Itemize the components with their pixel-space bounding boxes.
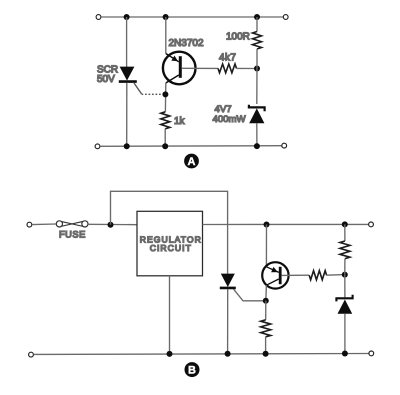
terminal top-right (circuit A): [283, 15, 288, 20]
node junction gate/collector/1k: [162, 91, 168, 97]
svg-text:1k: 1k: [174, 116, 186, 127]
resistor 100R: [253, 32, 262, 50]
SCR crowbar thyristor symbol: [220, 274, 236, 288]
resistor 4k7: [218, 64, 237, 73]
node junction bottom rail / collector resistor: [263, 351, 269, 357]
node junction gate/collector: [263, 298, 269, 304]
zener diode (sense): [336, 295, 352, 314]
node junction bottom rail / zener: [342, 351, 348, 357]
wire divider top: [344, 224, 346, 241]
wire Q2 base: [282, 274, 310, 276]
wire emitter vertical: [165, 17, 167, 54]
node junction output / sense divider: [342, 221, 348, 227]
terminal output right (circuit B): [369, 222, 374, 227]
resistor 1k: [161, 112, 170, 129]
wire zener anode top: [256, 69, 258, 105]
svg-text:4k7: 4k7: [219, 53, 236, 64]
regulator circuit box: [137, 211, 203, 275]
badge label A: [184, 154, 199, 169]
SCR (50V) thyristor symbol: [119, 67, 137, 82]
wire collector vertical: [164, 83, 166, 112]
wire node to resistor: [265, 301, 267, 320]
wire Q2 emitter vertical: [265, 225, 267, 267]
wire SCR anode: [126, 17, 128, 67]
wire base resistor to divider node: [327, 274, 345, 277]
svg-text:100R: 100R: [226, 32, 250, 43]
wire bottom rail B: [34, 353, 369, 356]
wire resistor to bottom rail: [265, 337, 267, 354]
zener diode 4V7 400mW: [249, 105, 265, 123]
svg-text:CIRCUIT: CIRCUIT: [150, 243, 192, 253]
wire Q2 collector down: [265, 285, 268, 301]
wire divider middle: [344, 259, 346, 275]
wire zener to bottom rail: [344, 314, 346, 354]
node junction bottom rail / SCR: [124, 143, 130, 149]
resistor (Q2 base): [309, 271, 326, 280]
wire top rail A: [101, 16, 283, 18]
terminal input left (circuit B): [27, 222, 32, 227]
wire 100R to node: [256, 49, 258, 69]
wire SCR gate (dashed): [134, 83, 163, 94]
transistor Q1 2N3702 (PNP): [163, 52, 196, 85]
node junction top rail / SCR anode: [124, 14, 130, 20]
node junction divider: [342, 272, 348, 278]
node junction bottom rail / 1k: [162, 143, 168, 149]
wire 100R top: [256, 17, 258, 32]
node junction bottom rail / regulator ground: [167, 351, 173, 357]
badge label B: [185, 362, 200, 377]
terminal bottom-right (circuit B): [369, 351, 374, 356]
wire SCR cathode to bottom rail: [126, 83, 128, 146]
wire zener cathode: [344, 275, 346, 298]
wire input to fuse: [32, 223, 56, 226]
terminal bottom-right (circuit A): [282, 143, 287, 148]
wire SCR cathode to bottom rail: [227, 289, 229, 354]
node junction bottom rail / SCR cathode: [225, 351, 231, 357]
wire base: [182, 67, 218, 69]
terminal bottom-left (circuit B): [29, 352, 34, 357]
node junction 100R/4k7/zener: [254, 66, 260, 72]
node junction fuse / bypass: [108, 222, 114, 228]
wire zener to bottom rail: [256, 123, 258, 146]
terminal bottom-left (circuit A): [95, 144, 100, 149]
wire regulator ground pin: [169, 276, 171, 354]
resistor (sense divider upper): [340, 241, 350, 259]
wire bypass up-and-over to SCR anode: [111, 191, 228, 273]
node junction bottom rail / zener: [254, 143, 260, 149]
node junction top rail / emitter: [163, 14, 169, 20]
wire SCR gate: [234, 289, 264, 301]
svg-text:400mW: 400mW: [213, 114, 247, 125]
svg-text:A: A: [188, 156, 196, 168]
wire fuse to regulator input: [88, 223, 137, 225]
fuse F1: [56, 221, 88, 227]
svg-text:2N3702: 2N3702: [169, 38, 204, 49]
transistor Q2 (PNP): [262, 262, 288, 288]
wire 4k7 to node: [237, 67, 258, 69]
node junction top rail / 100R: [254, 14, 260, 20]
resistor (Q2 collector load): [261, 320, 271, 337]
svg-text:FUSE: FUSE: [59, 230, 86, 240]
wire regulator output rail: [203, 223, 369, 225]
node junction output / Q2 emitter: [264, 222, 270, 228]
wire 1k to bottom rail: [164, 129, 166, 146]
svg-text:B: B: [188, 365, 196, 377]
terminal top-left (circuit A): [96, 15, 101, 20]
svg-text:50V: 50V: [97, 74, 115, 85]
wire bottom rail A: [100, 145, 282, 148]
